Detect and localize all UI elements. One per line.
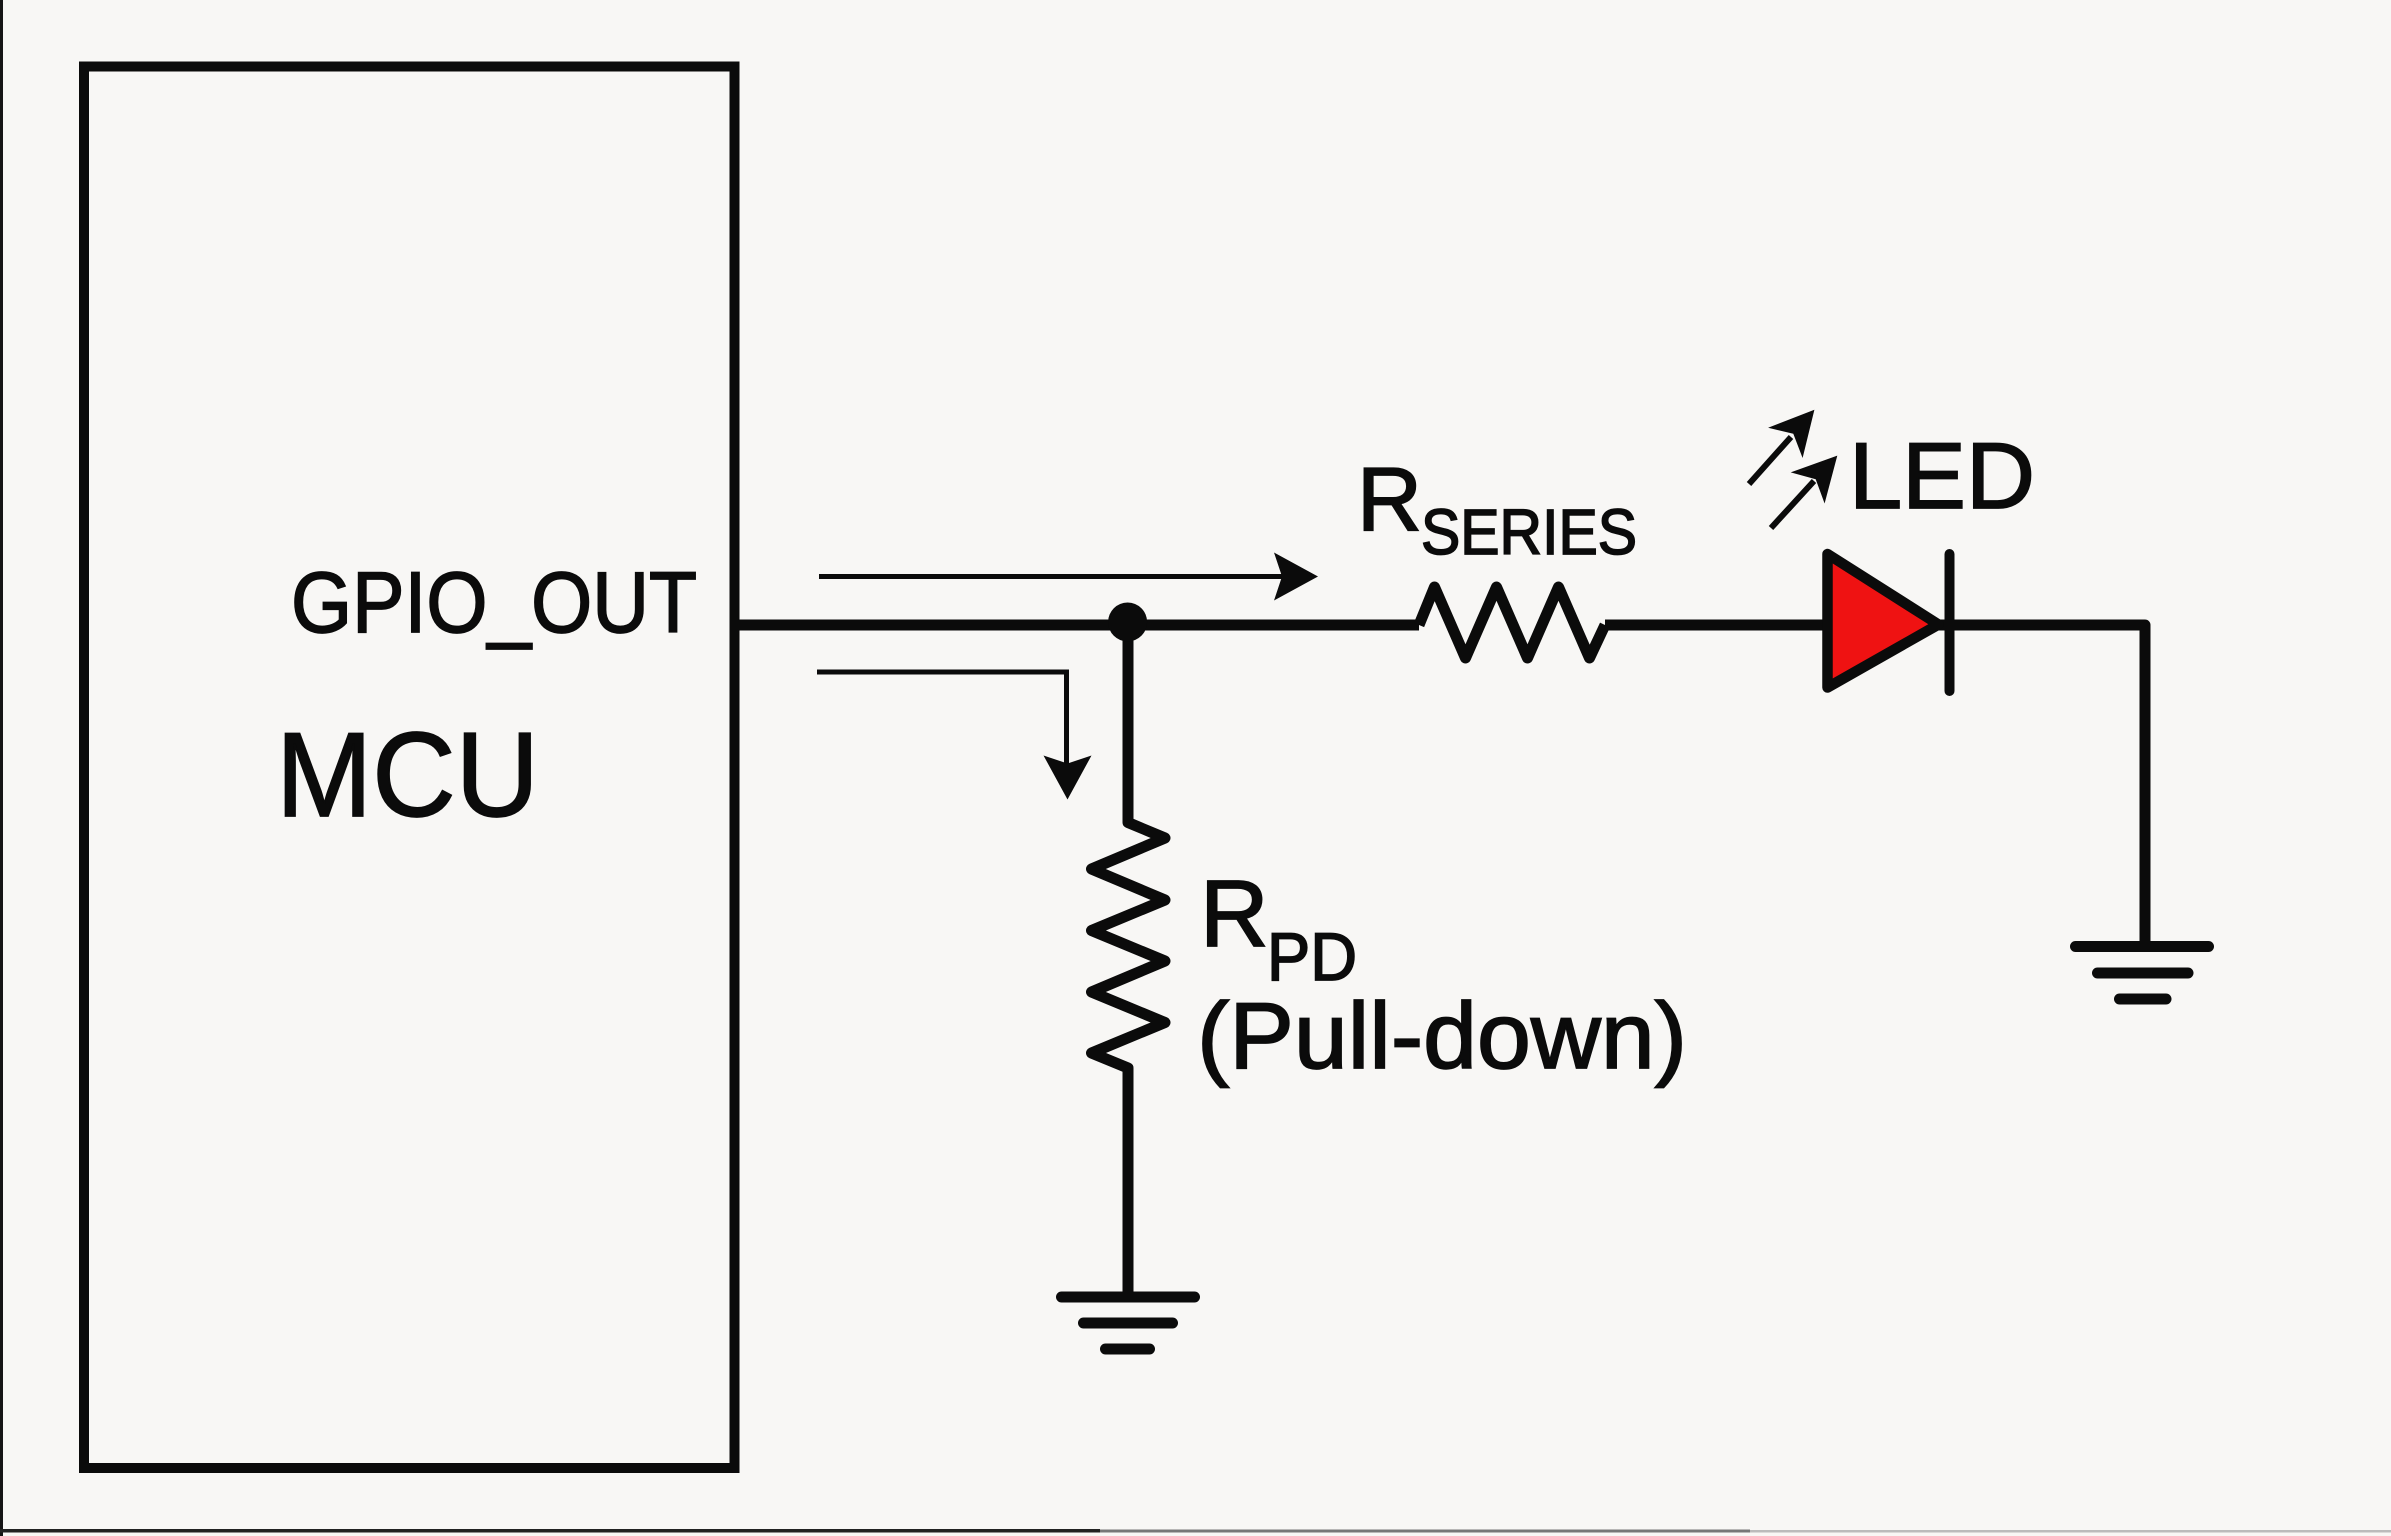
svg-text:R: R [1200,861,1269,967]
svg-text:R: R [1357,450,1422,550]
svg-text:MCU: MCU [276,708,539,842]
svg-text:LED: LED [1849,423,2035,528]
svg-text:SERIES: SERIES [1421,496,1637,568]
svg-text:GPIO_OUT: GPIO_OUT [291,555,697,651]
svg-text:(Pull-down): (Pull-down) [1197,983,1687,1088]
